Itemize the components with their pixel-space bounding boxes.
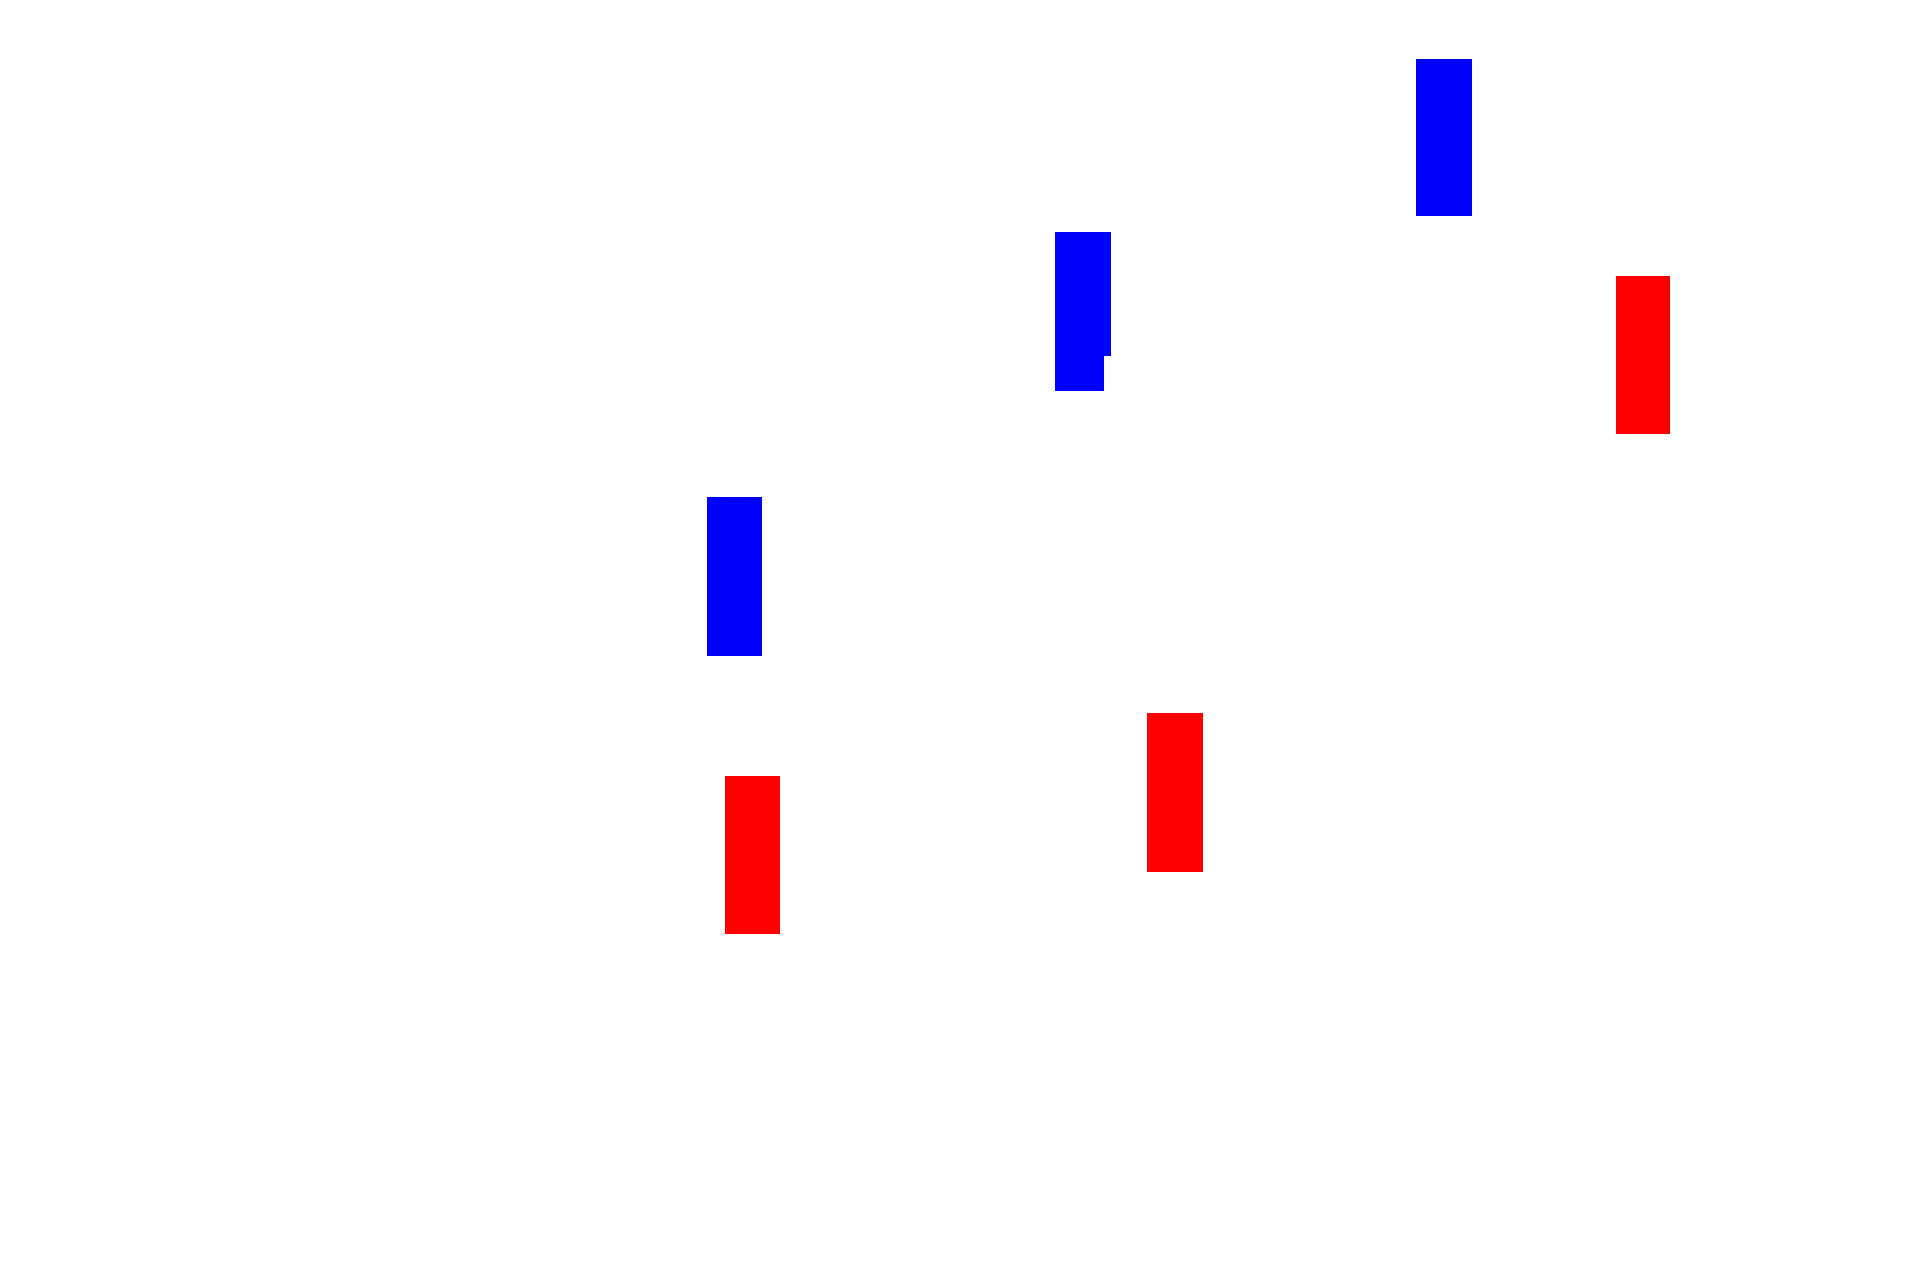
blue rectangle middle lower (narrow part of L-shape) <box>1055 234 1104 391</box>
blue rectangle top-right <box>1416 59 1472 216</box>
blue rectangle left-middle <box>707 497 762 656</box>
red rectangle right <box>1616 276 1670 434</box>
red rectangle center-bottom <box>1147 713 1203 872</box>
red rectangle bottom-left <box>725 776 780 934</box>
blue rectangle middle upper (wide part of L-shape) <box>1055 232 1111 356</box>
